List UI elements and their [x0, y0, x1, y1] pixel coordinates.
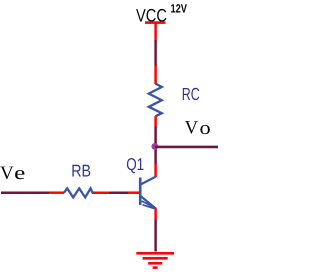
value label RB	[71, 161, 91, 180]
value label RC	[182, 84, 200, 104]
svg-text:e: e	[14, 163, 25, 184]
svg-text:Q1: Q1	[126, 155, 144, 174]
power terminal VCC (bar)	[145, 21, 166, 24]
wire emitter to ground	[154, 220, 157, 252]
wire output Vo	[155, 146, 218, 149]
pin Q1 collector	[154, 164, 157, 177]
svg-text:12V: 12V	[171, 2, 188, 16]
wire VCC to RC	[154, 40, 157, 66]
pin RC bottom	[154, 116, 157, 126]
transistor Q1 (NPN)	[140, 177, 156, 210]
pin RB left	[49, 191, 64, 194]
svg-text:RB: RB	[71, 161, 91, 180]
label VCC	[136, 6, 167, 26]
svg-text:V: V	[0, 163, 14, 184]
svg-text:o: o	[200, 118, 211, 139]
pin Q1 emitter	[154, 209, 157, 220]
svg-text:RC: RC	[182, 84, 200, 104]
resistor RC	[149, 84, 162, 117]
label Q1	[126, 155, 144, 174]
pin RB right	[92, 191, 109, 194]
wire Ve input	[1, 191, 49, 194]
label 12V	[171, 2, 188, 16]
pin RC top	[154, 66, 157, 84]
wire RB to base	[109, 191, 128, 194]
wire node to Q1 collector	[154, 150, 157, 164]
node Ve label	[0, 163, 25, 184]
pin VCC terminal	[154, 24, 157, 41]
node Vo label	[185, 118, 211, 139]
node junction (collector/output)	[151, 143, 158, 150]
ground	[136, 253, 174, 267]
resistor RB	[64, 188, 93, 197]
pin Q1 base	[128, 191, 140, 194]
wire RC to node	[154, 127, 157, 151]
svg-text:V: V	[185, 118, 199, 139]
